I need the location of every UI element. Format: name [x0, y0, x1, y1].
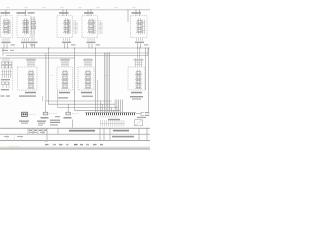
label U3 rear left lock	[59, 12, 69, 14]
scan edge shadow / scrollbar strip	[0, 147, 150, 148]
pin ticks below U1 front left lock	[2, 38, 4, 41]
trunk wire C2 x97.3	[96, 80, 98, 113]
right terminal bracket	[141, 112, 144, 115]
lock motor stack inside U4 rear right lock	[90, 18, 92, 34]
lock motor stack inside U1 front left lock	[5, 18, 7, 34]
connector label under U8	[82, 96, 93, 97]
lock motor stack inside U8 rear door unit	[87, 70, 89, 89]
wire to right terminal	[136, 113, 141, 115]
ground point label G203	[130, 96, 143, 97]
door lock unit U1 front left lock dashed enclosure	[1, 16, 13, 38]
harness horizontal wire y110.3	[75, 109, 121, 111]
connector cluster T10a label	[28, 12, 35, 13]
pin ticks below U2 front right lock	[22, 38, 24, 41]
lock motor stack inside U7 pass door unit	[64, 70, 66, 89]
wire colour label near U4 rear right lock	[96, 44, 101, 45]
wires from U4 rear right lock down to bus	[88, 44, 90, 49]
junction dots on collector bus	[48, 48, 49, 49]
external sense wires right of U3 rear left lock	[74, 20, 77, 34]
lock motor stack inside U2 front right lock	[24, 18, 26, 34]
wires from U2 front right lock down to bus	[23, 44, 25, 49]
door lock unit U7 pass door unit dashed enclosure	[57, 67, 73, 90]
wire drops from top bus to U1 front left lock	[5, 10, 7, 16]
branch tick right of trunk A	[51, 75, 53, 77]
title block frame bottom	[0, 139, 150, 141]
lower-left cell labels	[4, 136, 9, 137]
wire drops from top bus to U5 tailgate lock	[135, 10, 137, 16]
doc number text	[113, 130, 129, 132]
distribution wire y55.5 segments	[6, 55, 148, 57]
label under U9 rear door unit 2	[131, 92, 142, 94]
harness horizontal wire y105	[48, 103, 115, 105]
wire colour label near U5 tailgate lock	[144, 44, 149, 45]
trunk wire B x74.5	[74, 48, 76, 110]
wire drops from top bus to U3 rear left lock	[62, 10, 64, 16]
label U5 tailgate lock	[132, 12, 142, 14]
connector pin column of U4 rear right lock	[92, 20, 94, 35]
trunk wire C x95.5	[95, 48, 97, 113]
wires from U5 tailgate lock down to bus	[137, 44, 139, 49]
revision comb	[100, 120, 102, 127]
small label right of T2a dashes	[55, 116, 60, 117]
pin ticks below U4 rear right lock	[87, 38, 89, 41]
door lock unit U2 front right lock dashed enclosure	[17, 16, 31, 38]
wire label above U7 pass door unit	[60, 59, 70, 60]
drop from U7 to harness	[57, 90, 59, 107]
title block frame top	[0, 127, 150, 129]
wires from U3 rear left lock down to bus	[64, 44, 66, 49]
pin ticks below U3 rear left lock	[63, 38, 65, 41]
connector label under U7	[58, 97, 68, 98]
riser x3	[2, 48, 4, 56]
divider tick	[72, 120, 74, 128]
wire colour label near U1 front left lock	[11, 44, 16, 45]
stub above T2c	[41, 96, 43, 101]
harness horizontal wire y101.6	[46, 100, 112, 102]
door lock unit U9 rear door unit 2 dashed enclosure	[128, 67, 145, 90]
connector pin column of U1 front left lock	[7, 20, 9, 35]
wire drops from top bus to U2 front right lock	[25, 10, 27, 16]
riser x148	[147, 48, 149, 56]
label under harness	[108, 119, 120, 121]
connector cluster T10a	[30, 17, 32, 35]
door lock unit U8 rear door unit dashed enclosure	[78, 67, 94, 90]
label under U6 driver door unit	[25, 92, 36, 94]
trunk wire A2 x48.3	[47, 48, 49, 104]
faint warm artifact	[9, 146, 20, 147]
drop to connector T2a	[44, 101, 46, 112]
feed wires through bus to U9	[138, 48, 140, 58]
fuse feed wire left of U5	[127, 10, 129, 22]
trunk wire x148.5	[148, 48, 150, 114]
label U2 front right lock	[17, 12, 27, 14]
strip ticks below	[99, 116, 101, 118]
lock motor stack inside U6 driver door unit	[30, 70, 32, 89]
harness vertical wires	[99, 101, 101, 113]
wire colour labels under bus left	[2, 50, 8, 51]
connector label under U6	[19, 95, 36, 96]
relay plate cluster left	[2, 62, 5, 65]
drop to connector T2b	[67, 104, 69, 112]
second contact row of left cluster	[2, 82, 5, 85]
title block cell texts	[29, 130, 32, 131]
wire label above U8 rear door unit	[83, 59, 93, 60]
wires from U1 front left lock down to bus	[3, 44, 5, 49]
trunk bundle x104-110	[103, 53, 105, 113]
label under U7 pass door unit	[59, 92, 70, 94]
current track ticks above bus	[7, 8, 9, 10]
main connector strip pins	[86, 113, 87, 115]
door lock unit U3 rear left lock dashed enclosure	[57, 16, 73, 38]
distribution wire y58 left segment	[0, 57, 75, 59]
connector T2b	[66, 112, 71, 115]
main title text	[69, 130, 95, 132]
wires from bus to U9 rear door unit 2	[135, 58, 137, 67]
distribution wire y53 segments	[4, 52, 148, 54]
wires from bus to U8 rear door unit	[84, 58, 86, 67]
door lock unit U5 tailgate lock dashed enclosure	[131, 16, 148, 38]
main connector strip rail	[85, 111, 136, 113]
trunk wire A1 x45.9	[45, 53, 47, 101]
connector pin column of U2 front right lock	[25, 20, 27, 35]
pin ticks below U5 tailgate lock	[136, 38, 138, 41]
harness horizontal wire y109.3	[58, 106, 119, 108]
notes above title block center	[50, 120, 60, 121]
top supply bus (full width)	[0, 9, 150, 11]
title block column dividers (full height)	[46, 128, 48, 140]
wires from bus to U6 driver door unit	[27, 58, 29, 67]
wire colour label near U2 front right lock	[30, 44, 35, 45]
door lock unit U4 rear right lock dashed enclosure	[82, 16, 98, 38]
left cluster right edge	[12, 60, 14, 90]
tick on trunk bundle	[105, 75, 109, 77]
stamp symbol	[135, 120, 143, 126]
label U4 rear right lock	[84, 12, 94, 14]
connector label under left cluster	[1, 95, 5, 96]
lock motor stack inside U9 rear door unit 2	[137, 70, 139, 89]
wire colour label near U3 rear left lock	[71, 44, 76, 45]
wire label above U6 driver door unit	[26, 59, 36, 60]
wire label above U9 rear door unit 2	[134, 59, 144, 60]
lock motor stack inside U3 rear left lock	[65, 18, 67, 34]
title block middle rule	[0, 133, 150, 135]
external sense wires right of U4 rear right lock	[99, 20, 102, 34]
collector bus y48	[0, 47, 150, 49]
label under U8 rear door unit	[81, 92, 92, 94]
lock motor stack inside U5 tailgate lock	[138, 18, 140, 34]
dash below table	[44, 140, 48, 142]
faint dividers bottom row left	[7, 134, 21, 140]
wire drops from top bus to U4 rear right lock	[87, 10, 89, 16]
wires from bus to U7 pass door unit	[61, 58, 63, 67]
connector pin column of U5 tailgate lock	[142, 20, 144, 35]
paper background	[0, 0, 150, 150]
wires bus to left cluster	[2, 58, 4, 62]
page footer text	[45, 144, 49, 145]
connector pin column of U3 rear left lock	[67, 20, 69, 35]
connector T2c	[22, 112, 28, 116]
trunk wire x145.5	[145, 48, 147, 90]
notes above title block left	[19, 121, 29, 122]
door lock unit U6 driver door unit dashed enclosure	[18, 67, 38, 90]
connector T2a	[43, 112, 48, 115]
title block column dividers (upper row, left)	[27, 128, 29, 134]
label U1 front left lock	[1, 12, 11, 14]
